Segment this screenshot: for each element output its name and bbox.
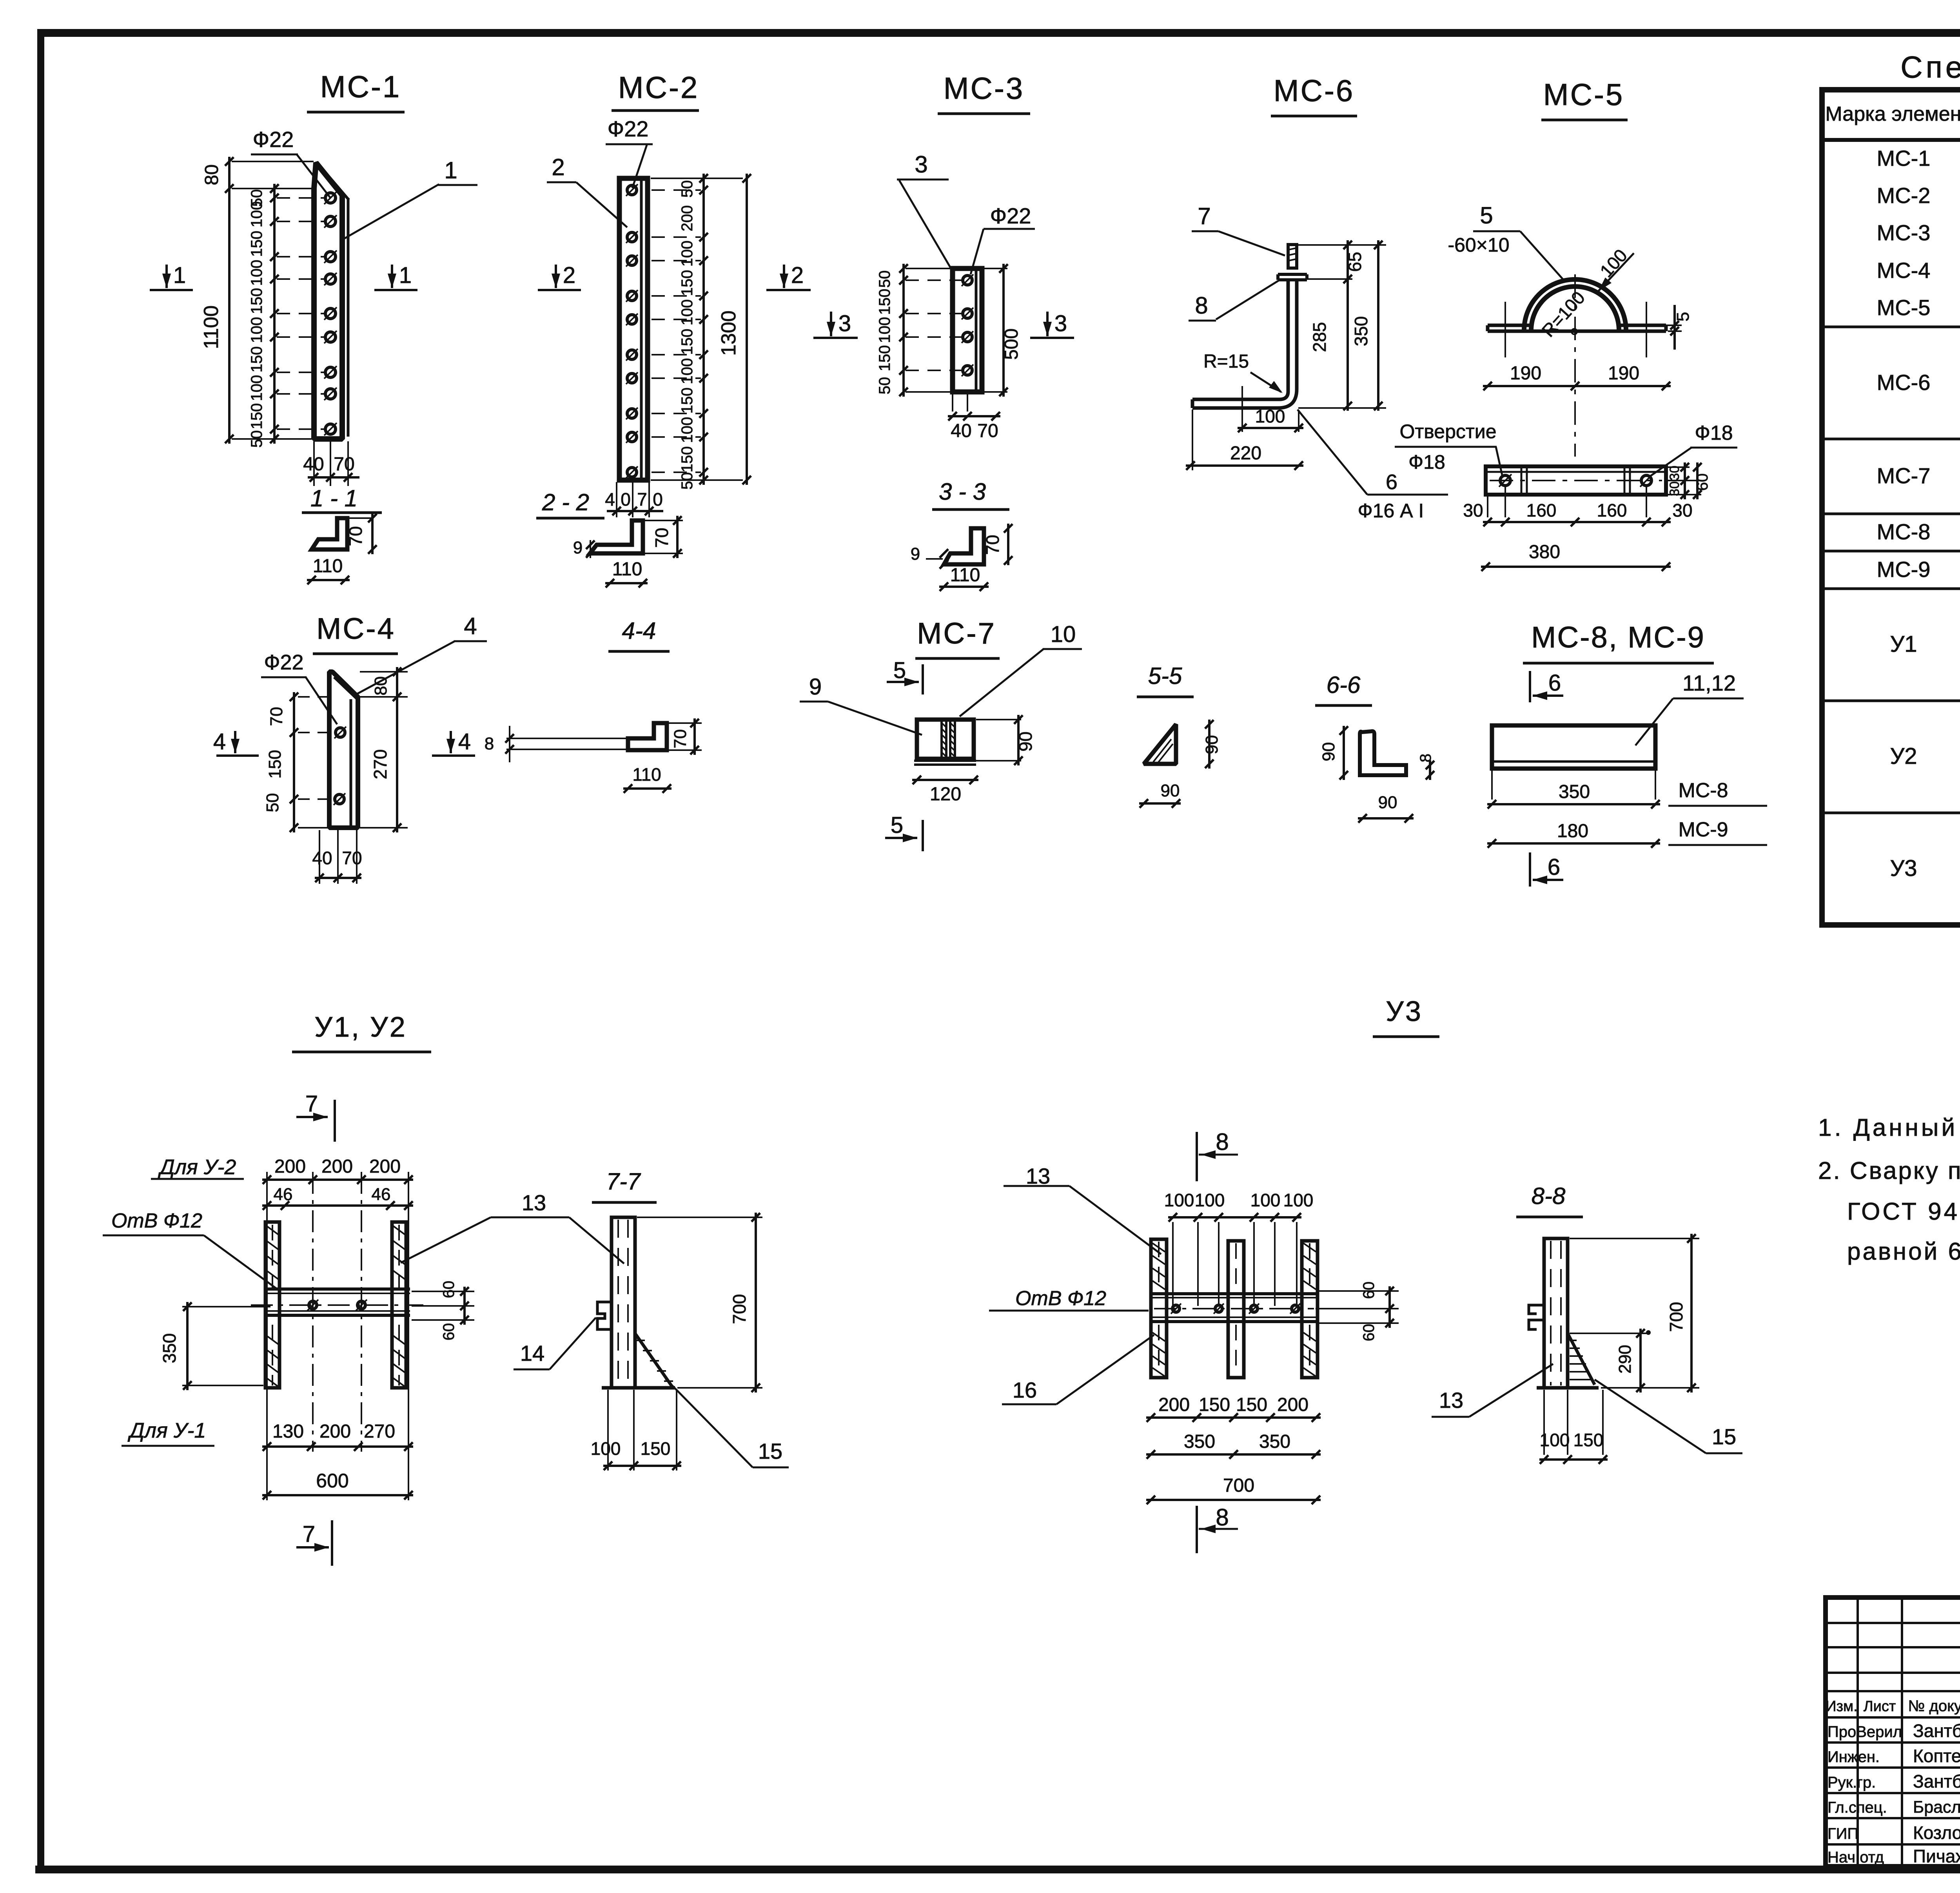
MC-6 dim 100	[1241, 386, 1243, 432]
svg-text:Инжен.: Инжен.	[1828, 1748, 1880, 1766]
svg-text:МС-1: МС-1	[320, 69, 401, 104]
svg-text:190: 190	[1608, 363, 1639, 384]
svg-text:1: 1	[444, 157, 457, 183]
MC-3 hole extension lines	[906, 279, 962, 281]
section 6-6 thickness 8	[1429, 760, 1431, 780]
svg-text:110: 110	[632, 764, 661, 785]
section 7-7 welded channel 14 profile	[597, 1302, 610, 1329]
svg-text:200: 200	[679, 205, 696, 232]
MC-7 plate with welded strips	[917, 720, 974, 759]
svg-text:0: 0	[621, 489, 631, 510]
svg-text:700: 700	[1223, 1475, 1254, 1496]
section 6-6 dim 90 left	[1343, 726, 1345, 780]
svg-text:50: 50	[263, 793, 282, 812]
svg-text:4: 4	[605, 489, 615, 510]
svg-text:7: 7	[303, 1521, 315, 1547]
svg-text:8-8: 8-8	[1532, 1183, 1566, 1209]
svg-text:150: 150	[679, 270, 696, 296]
MC-3 bottom dims 40 70	[952, 392, 953, 412]
svg-text:90: 90	[1015, 731, 1036, 751]
svg-text:8: 8	[1195, 292, 1208, 319]
section 4-4 dim 70	[669, 722, 702, 724]
svg-text:100: 100	[248, 375, 265, 401]
svg-text:150: 150	[248, 288, 265, 314]
svg-text:270: 270	[370, 749, 390, 780]
svg-text:13: 13	[1026, 1164, 1050, 1188]
svg-text:380: 380	[1529, 542, 1560, 562]
MC-1 holes	[325, 193, 336, 203]
svg-text:60: 60	[1360, 1282, 1377, 1299]
U3 right channel	[1302, 1241, 1318, 1378]
svg-text:МС-8: МС-8	[1877, 519, 1931, 544]
MC-5 plan overall dim 380	[1481, 566, 1671, 568]
svg-text:Спецификация металла на одн: Спецификация металла на одну марку	[1900, 50, 1960, 84]
svg-text:7: 7	[305, 1091, 318, 1117]
MC-1 section mark 1 right	[391, 265, 393, 288]
svg-text:150: 150	[1236, 1394, 1267, 1415]
section 8-8 gusset	[1568, 1333, 1595, 1385]
section 5-5 gusset triangle	[1144, 724, 1176, 764]
svg-text:200: 200	[1158, 1394, 1190, 1415]
svg-text:30: 30	[1667, 466, 1682, 481]
svg-text:350: 350	[1559, 781, 1590, 802]
MC-7 dim 90	[976, 719, 1021, 720]
svg-text:150: 150	[1573, 1430, 1604, 1450]
svg-text:5: 5	[891, 812, 903, 838]
svg-text:МС-8: МС-8	[1678, 779, 1728, 802]
svg-text:6-6: 6-6	[1327, 672, 1361, 698]
svg-text:50: 50	[679, 180, 696, 198]
svg-text:2. Сварку производить электр: 2. Сварку производить электродами Э-42 п…	[1818, 1157, 1960, 1184]
svg-text:285: 285	[1309, 322, 1330, 352]
MC-4 section mark 4 right	[450, 731, 452, 753]
svg-text:100: 100	[679, 299, 696, 326]
svg-text:110: 110	[612, 559, 642, 580]
svg-text:290: 290	[1615, 1345, 1635, 1373]
svg-text:90: 90	[1319, 742, 1338, 762]
svg-text:равной 6 мм.: равной 6 мм.	[1847, 1238, 1960, 1265]
MC-5 strap plan view	[1486, 466, 1666, 495]
svg-text:150: 150	[876, 289, 893, 315]
svg-text:6: 6	[1548, 670, 1561, 696]
svg-text:Гл.спец.: Гл.спец.	[1828, 1799, 1887, 1816]
MC-2 holes	[627, 185, 637, 195]
svg-text:6: 6	[1386, 470, 1397, 494]
MC-3 section mark 3 left	[830, 312, 832, 336]
MC-1 bottom dims 40 70	[313, 441, 315, 486]
svg-text:5-5: 5-5	[1148, 663, 1182, 689]
svg-text:13: 13	[522, 1190, 546, 1215]
svg-text:3: 3	[838, 311, 851, 336]
MC-6 anchor rod bent bar	[1192, 280, 1297, 408]
spec table outer frame	[1822, 90, 1960, 925]
svg-text:Нач.отд: Нач.отд	[1828, 1849, 1884, 1866]
svg-text:2: 2	[563, 263, 575, 288]
U1 left channel	[265, 1222, 279, 1388]
svg-text:100: 100	[1255, 406, 1285, 426]
svg-text:1300: 1300	[717, 310, 740, 356]
MC-2 section mark 2 right	[783, 265, 785, 288]
svg-text:160: 160	[1597, 500, 1627, 520]
svg-text:МС-9: МС-9	[1877, 557, 1931, 582]
svg-text:350: 350	[1351, 316, 1371, 346]
svg-text:2: 2	[552, 154, 564, 180]
MC-5 plan right small dims 30 30 60	[1668, 466, 1690, 468]
svg-text:100: 100	[248, 201, 265, 228]
svg-text:90: 90	[1378, 793, 1397, 812]
U1 web holes	[309, 1301, 317, 1309]
section 2-2 dim 70	[645, 520, 683, 521]
svg-text:ОтВ Ф12: ОтВ Ф12	[1015, 1287, 1106, 1310]
svg-text:90: 90	[1161, 781, 1180, 800]
svg-text:Ф22: Ф22	[264, 651, 303, 674]
svg-text:Лист: Лист	[1864, 1698, 1896, 1715]
svg-text:Изм.: Изм.	[1826, 1698, 1857, 1715]
svg-text:8: 8	[1216, 1129, 1229, 1155]
svg-text:Зантберг: Зантберг	[1913, 1721, 1960, 1741]
svg-text:МС-6: МС-6	[1877, 370, 1931, 395]
svg-text:60: 60	[440, 1323, 457, 1341]
section 1-1 dim 110	[307, 579, 350, 581]
svg-text:1: 1	[399, 263, 412, 288]
svg-text:30: 30	[1667, 481, 1682, 496]
svg-text:3 - 3: 3 - 3	[939, 479, 986, 505]
section 5-5 dim 90 horizontal	[1139, 802, 1181, 805]
svg-text:4: 4	[458, 729, 471, 754]
svg-text:220: 220	[1230, 443, 1261, 464]
section 2-2 dim 110	[605, 582, 648, 584]
svg-text:7: 7	[1198, 203, 1210, 229]
section 3-3 dim 70	[1007, 524, 1009, 565]
svg-text:50: 50	[876, 270, 893, 288]
svg-text:МС-3: МС-3	[1877, 220, 1931, 245]
section 8-8 welded plates left	[1529, 1305, 1544, 1329]
svg-text:200: 200	[321, 1156, 353, 1177]
svg-text:150: 150	[641, 1438, 671, 1459]
svg-text:МС-9: МС-9	[1678, 818, 1728, 841]
svg-text:190: 190	[1510, 363, 1541, 384]
svg-text:100: 100	[1164, 1190, 1194, 1210]
title block outer frame	[1826, 1597, 1960, 1866]
svg-text:120: 120	[930, 784, 961, 805]
svg-text:90: 90	[1202, 735, 1221, 754]
section 6-6 angle profile	[1360, 731, 1406, 775]
section 3-3 angle profile	[944, 528, 984, 564]
MC-2 bottom dims 40 70	[616, 482, 617, 517]
svg-text:МС-7: МС-7	[1877, 463, 1931, 488]
svg-text:150: 150	[248, 403, 265, 430]
svg-text:350: 350	[1184, 1431, 1215, 1452]
svg-text:МС-2: МС-2	[1877, 183, 1931, 208]
svg-text:30: 30	[1463, 500, 1483, 520]
section 8-8 dim 290	[1570, 1333, 1648, 1334]
svg-text:70: 70	[982, 535, 1003, 555]
svg-text:8: 8	[1417, 754, 1434, 762]
svg-text:70: 70	[977, 421, 998, 441]
svg-text:1100: 1100	[200, 305, 223, 349]
svg-text:130: 130	[272, 1421, 304, 1442]
svg-text:Ф18: Ф18	[1695, 422, 1733, 444]
svg-text:МС-3: МС-3	[944, 71, 1025, 105]
MC-8 MC-9 bar	[1492, 725, 1655, 769]
MC-3 section mark 3 right	[1046, 312, 1049, 336]
svg-text:46: 46	[372, 1185, 391, 1204]
svg-text:5: 5	[893, 658, 906, 683]
svg-text:-60×10: -60×10	[1448, 234, 1509, 256]
svg-text:Ф22: Ф22	[253, 127, 294, 152]
svg-text:80: 80	[371, 676, 390, 696]
svg-text:У1: У1	[1890, 631, 1917, 657]
svg-text:700: 700	[729, 1294, 750, 1324]
U3 web plate	[1151, 1292, 1318, 1295]
U1 dim 350	[182, 1306, 270, 1307]
svg-text:13: 13	[1439, 1388, 1463, 1412]
svg-text:10: 10	[1051, 622, 1076, 647]
svg-text:150: 150	[1199, 1394, 1230, 1415]
svg-text:Ф22: Ф22	[608, 116, 649, 141]
svg-text:ГИП: ГИП	[1828, 1825, 1858, 1842]
svg-text:11,12: 11,12	[1682, 671, 1736, 695]
svg-text:7: 7	[637, 489, 647, 510]
MC-5 thickness dim 5	[1628, 325, 1682, 326]
svg-text:1. Данный лист комплектен с: 1. Данный лист комплектен с листами	[1818, 1114, 1960, 1141]
MC-4 section mark 4 left	[234, 731, 236, 753]
MC-1 hole extension lines	[277, 197, 325, 199]
svg-text:Отверстие: Отверстие	[1399, 421, 1496, 442]
U1 web plate	[265, 1287, 410, 1291]
section 8-8 channel	[1544, 1238, 1568, 1388]
svg-text:У1, У2: У1, У2	[314, 1012, 407, 1043]
U3 left channel	[1151, 1239, 1167, 1378]
svg-text:60: 60	[1360, 1324, 1377, 1342]
MC-8 dim 350	[1491, 770, 1493, 800]
svg-text:100: 100	[1283, 1190, 1314, 1210]
svg-text:60: 60	[440, 1281, 457, 1298]
svg-text:150: 150	[679, 388, 696, 414]
svg-text:200: 200	[1277, 1394, 1308, 1415]
svg-text:Для У-2: Для У-2	[158, 1155, 236, 1179]
svg-text:100: 100	[876, 317, 893, 343]
svg-text:ГОСТ 9467-75. Толщину сварны: ГОСТ 9467-75. Толщину сварных швов приня…	[1847, 1198, 1960, 1225]
svg-text:Марка элемента: Марка элемента	[1825, 103, 1960, 125]
svg-text:7-7: 7-7	[606, 1168, 641, 1195]
MC-1 overall dim 1100 and 80	[228, 157, 230, 444]
MC-9 dim 180	[1487, 842, 1660, 845]
svg-text:R=15: R=15	[1203, 351, 1249, 372]
U3 right dims 60 60	[1319, 1290, 1399, 1292]
svg-text:100: 100	[1540, 1430, 1570, 1450]
MC-5 clamp arc front view	[1524, 279, 1626, 330]
MC-1 angle bar outline	[314, 163, 342, 439]
title block left grid horizontals	[1826, 1622, 1960, 1624]
svg-text:70: 70	[652, 528, 672, 548]
svg-text:Браславский: Браславский	[1913, 1798, 1960, 1817]
svg-text:6: 6	[1548, 854, 1560, 880]
MC-6 right dims 65 285	[1298, 244, 1352, 246]
svg-text:МС-4: МС-4	[316, 612, 396, 646]
svg-text:200: 200	[319, 1421, 351, 1442]
MC-1 section mark 1 left	[165, 265, 168, 288]
svg-text:8: 8	[1216, 1504, 1229, 1530]
MC-2 inner dim line with spacing numbers	[702, 174, 705, 485]
svg-text:3: 3	[915, 151, 927, 178]
svg-text:100: 100	[679, 417, 696, 443]
svg-text:4-4: 4-4	[622, 618, 656, 644]
MC-3 right dim 500	[984, 268, 1007, 269]
svg-text:У3: У3	[1386, 996, 1423, 1027]
MC-4 holes	[336, 728, 345, 737]
svg-text:110: 110	[313, 556, 343, 577]
svg-text:100: 100	[591, 1438, 621, 1459]
svg-text:Ф22: Ф22	[990, 203, 1031, 228]
MC-6 anchor bolt tip	[1288, 245, 1297, 268]
svg-text:50: 50	[248, 430, 265, 448]
MC-5 vertical centerline	[1574, 274, 1576, 457]
section 7-7 dim 700	[637, 1217, 762, 1218]
svg-text:100: 100	[1195, 1190, 1225, 1210]
svg-text:100: 100	[679, 358, 696, 384]
svg-text:4: 4	[464, 613, 477, 639]
MC-6 anchor washer and nut	[1278, 273, 1307, 276]
svg-text:1: 1	[173, 263, 186, 288]
svg-text:80: 80	[201, 164, 222, 185]
MC-5 front view hole centerlines	[1504, 302, 1506, 357]
U1 right channel	[392, 1222, 406, 1388]
MC-3 holes	[963, 276, 972, 285]
svg-text:200: 200	[274, 1156, 306, 1177]
svg-text:65: 65	[1345, 252, 1365, 272]
svg-text:Коптев: Коптев	[1913, 1746, 1960, 1766]
section 5-5 dim 90 vertical	[1208, 720, 1210, 769]
MC-2 overall dim 1300	[651, 178, 743, 179]
section 2-2 angle profile	[590, 520, 643, 553]
U3 web holes	[1172, 1305, 1180, 1312]
svg-text:Для У-1: Для У-1	[128, 1419, 206, 1442]
MC-7 dim 120	[912, 779, 978, 781]
svg-text:Пичахчи: Пичахчи	[1913, 1846, 1960, 1866]
section 4-4 angle profile	[628, 723, 667, 750]
MC-6 dim 220	[1192, 410, 1193, 470]
svg-text:500: 500	[1001, 328, 1022, 360]
MC-4 bottom dims 40 70	[319, 830, 320, 884]
svg-text:9: 9	[809, 674, 822, 700]
svg-text:100: 100	[248, 260, 265, 286]
section 3-3 dim 110	[939, 586, 989, 588]
svg-text:5: 5	[1673, 312, 1693, 321]
svg-text:150: 150	[265, 750, 285, 778]
svg-text:МС-8, МС-9: МС-8, МС-9	[1531, 621, 1705, 654]
svg-text:№ документа: № документа	[1908, 1697, 1960, 1715]
svg-text:150: 150	[248, 231, 265, 257]
svg-text:70: 70	[267, 707, 286, 726]
svg-text:100: 100	[248, 317, 265, 343]
svg-text:5: 5	[1480, 202, 1493, 228]
MC-3 angle bar outline	[953, 268, 982, 392]
section 7-7 bottom dims 100 150	[607, 1390, 609, 1471]
svg-text:200: 200	[369, 1156, 401, 1177]
svg-text:Ф18: Ф18	[1408, 451, 1445, 473]
svg-text:270: 270	[364, 1421, 395, 1442]
svg-text:150: 150	[876, 345, 893, 372]
svg-text:150: 150	[248, 346, 265, 373]
U1 right dims 60 60	[412, 1291, 474, 1292]
svg-text:Ф16 А I: Ф16 А I	[1358, 500, 1424, 522]
svg-text:3: 3	[1054, 311, 1067, 336]
svg-text:150: 150	[679, 329, 696, 355]
MC-5 plan dims 30 160 160 30	[1487, 496, 1488, 517]
svg-text:600: 600	[316, 1470, 348, 1492]
svg-text:70: 70	[334, 454, 354, 475]
title block left grid verticals	[1857, 1597, 1859, 1866]
svg-text:100: 100	[1250, 1190, 1281, 1210]
MC-4 left dims 70 150 50	[298, 696, 328, 698]
svg-text:60: 60	[1694, 473, 1711, 491]
svg-text:350: 350	[159, 1333, 180, 1364]
svg-text:9: 9	[573, 538, 583, 557]
MC-1 inner dim line with spacing numbers	[273, 184, 276, 444]
svg-text:50: 50	[876, 377, 893, 395]
svg-text:14: 14	[520, 1341, 544, 1365]
svg-text:МС-2: МС-2	[618, 70, 699, 105]
svg-text:1 - 1: 1 - 1	[310, 485, 358, 511]
section 4-4 dim 110	[623, 787, 671, 790]
svg-text:40: 40	[312, 848, 332, 868]
svg-text:8: 8	[485, 734, 494, 753]
svg-text:ОтВ Ф12: ОтВ Ф12	[111, 1209, 202, 1232]
U3 middle channel	[1228, 1241, 1244, 1378]
svg-text:МС-1: МС-1	[1877, 146, 1931, 170]
MC-2 section mark 2 left	[555, 265, 557, 288]
svg-text:Козловская: Козловская	[1913, 1822, 1960, 1843]
svg-text:МС-6: МС-6	[1274, 73, 1355, 108]
MC-4 angle bar outline	[329, 672, 358, 828]
svg-text:16: 16	[1013, 1378, 1037, 1402]
svg-text:110: 110	[950, 565, 980, 586]
svg-text:Зантберг: Зантберг	[1913, 1771, 1960, 1791]
svg-text:15: 15	[1712, 1424, 1736, 1449]
svg-text:40: 40	[303, 454, 324, 475]
MC-5 plan holes	[1500, 475, 1510, 486]
svg-text:2 - 2: 2 - 2	[542, 489, 589, 515]
svg-text:У2: У2	[1890, 743, 1917, 769]
svg-text:350: 350	[1259, 1431, 1290, 1452]
svg-text:46: 46	[274, 1185, 293, 1204]
svg-text:ПроВерил: ПроВерил	[1828, 1723, 1902, 1741]
section 1-1 dim 70	[371, 513, 374, 554]
MC-2 angle bar outline	[619, 178, 648, 480]
svg-text:МС-4: МС-4	[1877, 258, 1931, 283]
MC-2 hole extension lines	[652, 189, 701, 191]
svg-text:15: 15	[758, 1439, 782, 1463]
svg-text:МС-5: МС-5	[1543, 77, 1624, 112]
MC-4 right dims 80 270	[360, 671, 408, 673]
svg-text:160: 160	[1526, 500, 1557, 520]
section 7-7 gusset	[635, 1333, 672, 1386]
svg-text:70: 70	[345, 526, 366, 546]
svg-text:30: 30	[1672, 500, 1692, 520]
svg-text:У3: У3	[1890, 856, 1917, 881]
svg-text:9: 9	[911, 544, 920, 564]
MC-5 feet dims 190 190	[1483, 385, 1671, 387]
section 7-7 channel	[612, 1217, 635, 1388]
svg-text:МС-7: МС-7	[917, 617, 996, 650]
svg-text:70: 70	[342, 848, 362, 868]
section 8-8 dim 700	[1570, 1238, 1699, 1239]
svg-text:70: 70	[671, 729, 690, 749]
MC-3 left dim line with spacing numbers	[902, 264, 905, 397]
section 6-6 dim 90 bottom	[1358, 817, 1414, 820]
svg-text:4: 4	[213, 729, 226, 754]
